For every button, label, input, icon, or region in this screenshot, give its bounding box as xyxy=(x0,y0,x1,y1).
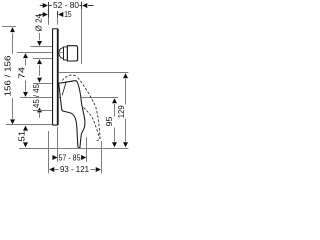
wire tail below dia24 text xyxy=(39,33,41,40)
node arrow right at wall tick top dim xyxy=(43,3,48,8)
wire 95 dim lower tail xyxy=(114,128,116,142)
wire 156 dim line lower xyxy=(12,98,14,119)
wire ref line 156 top anchor xyxy=(2,26,16,28)
handle lever dashed left edge open position xyxy=(84,108,100,139)
node arrow left 57-85 xyxy=(52,155,57,160)
wire plate front face thick edge xyxy=(57,29,59,125)
wire centerline hub y97.5 left xyxy=(20,97,52,99)
node arrow left 93-121 xyxy=(49,167,54,172)
node arrow left at plate face dim15 xyxy=(58,12,63,17)
svg-text:Ø 24: Ø 24 xyxy=(34,13,43,31)
node arrow right 93-121 xyxy=(96,167,101,172)
node arrow down 129 bottom xyxy=(123,142,128,147)
svg-text:15: 15 xyxy=(64,10,72,19)
wire 93-121 dim segments xyxy=(55,169,59,171)
node arrow up to knob bottom line xyxy=(37,59,42,64)
wire extension line wall x48 top light part xyxy=(48,18,50,25)
wire 129 dim upper tail xyxy=(125,79,127,105)
wire extension line x81.5 down to knob xyxy=(81,9,83,64)
wire ref centerline knob y52.5 xyxy=(17,52,58,54)
wire ref line hub bottom y110.5 xyxy=(33,110,52,112)
node arrow left at tick x81.5 xyxy=(82,3,87,8)
wire extension line wall x48 bottom xyxy=(48,131,50,173)
node arrow right 57-85 xyxy=(81,155,86,160)
wire top dimension line 52-80 left tail xyxy=(40,5,44,7)
node arrow up 129 top xyxy=(123,73,128,78)
valve ring xyxy=(64,47,68,60)
svg-text:156 / 156: 156 / 156 xyxy=(3,55,12,97)
wire extension line wall x48 top dark part xyxy=(48,2,50,18)
wire centerline valve y72.5 xyxy=(59,72,129,74)
handle lever dashed arc open position top xyxy=(62,75,77,81)
wire extension line plate face x57.5 dark part xyxy=(57,11,59,18)
node arrow up to hub bottom line xyxy=(37,107,42,112)
svg-text:51: 51 xyxy=(17,130,26,142)
wire tail below arrow xyxy=(39,113,41,118)
wire 74 dim lower tail xyxy=(25,81,27,91)
wire 95 dim upper tail xyxy=(114,104,116,117)
handle lever dashed right edge open position xyxy=(78,78,100,139)
node arrow down 156 bottom xyxy=(10,119,15,124)
svg-text:45 / 45: 45 / 45 xyxy=(32,83,41,108)
wire tail below arrow xyxy=(39,65,41,76)
wire 95 dim top arrow xyxy=(112,98,117,103)
wire ref line lever top y83.5 xyxy=(33,83,52,85)
svg-text:95: 95 xyxy=(105,116,114,127)
node arrow up 156 top xyxy=(10,27,15,32)
wire dim line 52-80 inner segments xyxy=(49,5,52,7)
capacitor-like valve neck dome xyxy=(59,48,63,59)
wire centerline hub y97.5 right xyxy=(59,97,118,99)
svg-text:52 - 80: 52 - 80 xyxy=(53,1,80,10)
wire extension line plate face x57.5 bottom xyxy=(57,127,59,162)
wire ref line knob bottom y58.5 xyxy=(33,58,52,60)
svg-text:129: 129 xyxy=(117,105,126,119)
svg-text:57 - 85: 57 - 85 xyxy=(59,153,81,162)
wire 156 dim line upper xyxy=(12,33,14,54)
node arrow down 51 bottom xyxy=(23,142,28,147)
node arrow up 51 top xyxy=(23,126,28,131)
wire handle bottom ref line y148.5 xyxy=(19,148,128,150)
svg-text:93 - 121: 93 - 121 xyxy=(60,165,90,174)
escutcheon plate xyxy=(53,29,58,125)
node arrow down to lever top line xyxy=(37,78,42,83)
wire extension line plate face x57.5 light part xyxy=(57,18,59,25)
wire 129 dim lower tail xyxy=(125,119,127,142)
node arrow down to knob top line xyxy=(37,41,42,46)
wire extension line handle widest x86.5 xyxy=(86,137,88,162)
handle lever dashed tip arc xyxy=(97,138,100,141)
wire 74 dim upper tail xyxy=(25,59,27,66)
node arrow up 74 top xyxy=(23,53,28,58)
wire ref line knob top y46.5 xyxy=(31,46,53,48)
wire extension line dashed tip x101 xyxy=(101,141,103,173)
svg-text:74: 74 xyxy=(17,66,26,79)
node arrow right at wall tick dim15 xyxy=(43,12,48,17)
wire ref line plate bottom ext y124.5 xyxy=(6,124,52,126)
node arrow down 95 bottom xyxy=(112,142,117,147)
wire centerline through neck xyxy=(59,52,63,54)
node arrow down 74 bottom xyxy=(23,92,28,97)
handle lever solid closed position xyxy=(59,81,85,148)
wire dim 15 left tail xyxy=(39,14,44,16)
wire extension line x81.5 top dark part xyxy=(81,2,83,9)
wire tail right of 52-80 xyxy=(88,5,94,7)
valve knob xyxy=(67,46,77,61)
wire lever interior crease xyxy=(62,81,66,95)
